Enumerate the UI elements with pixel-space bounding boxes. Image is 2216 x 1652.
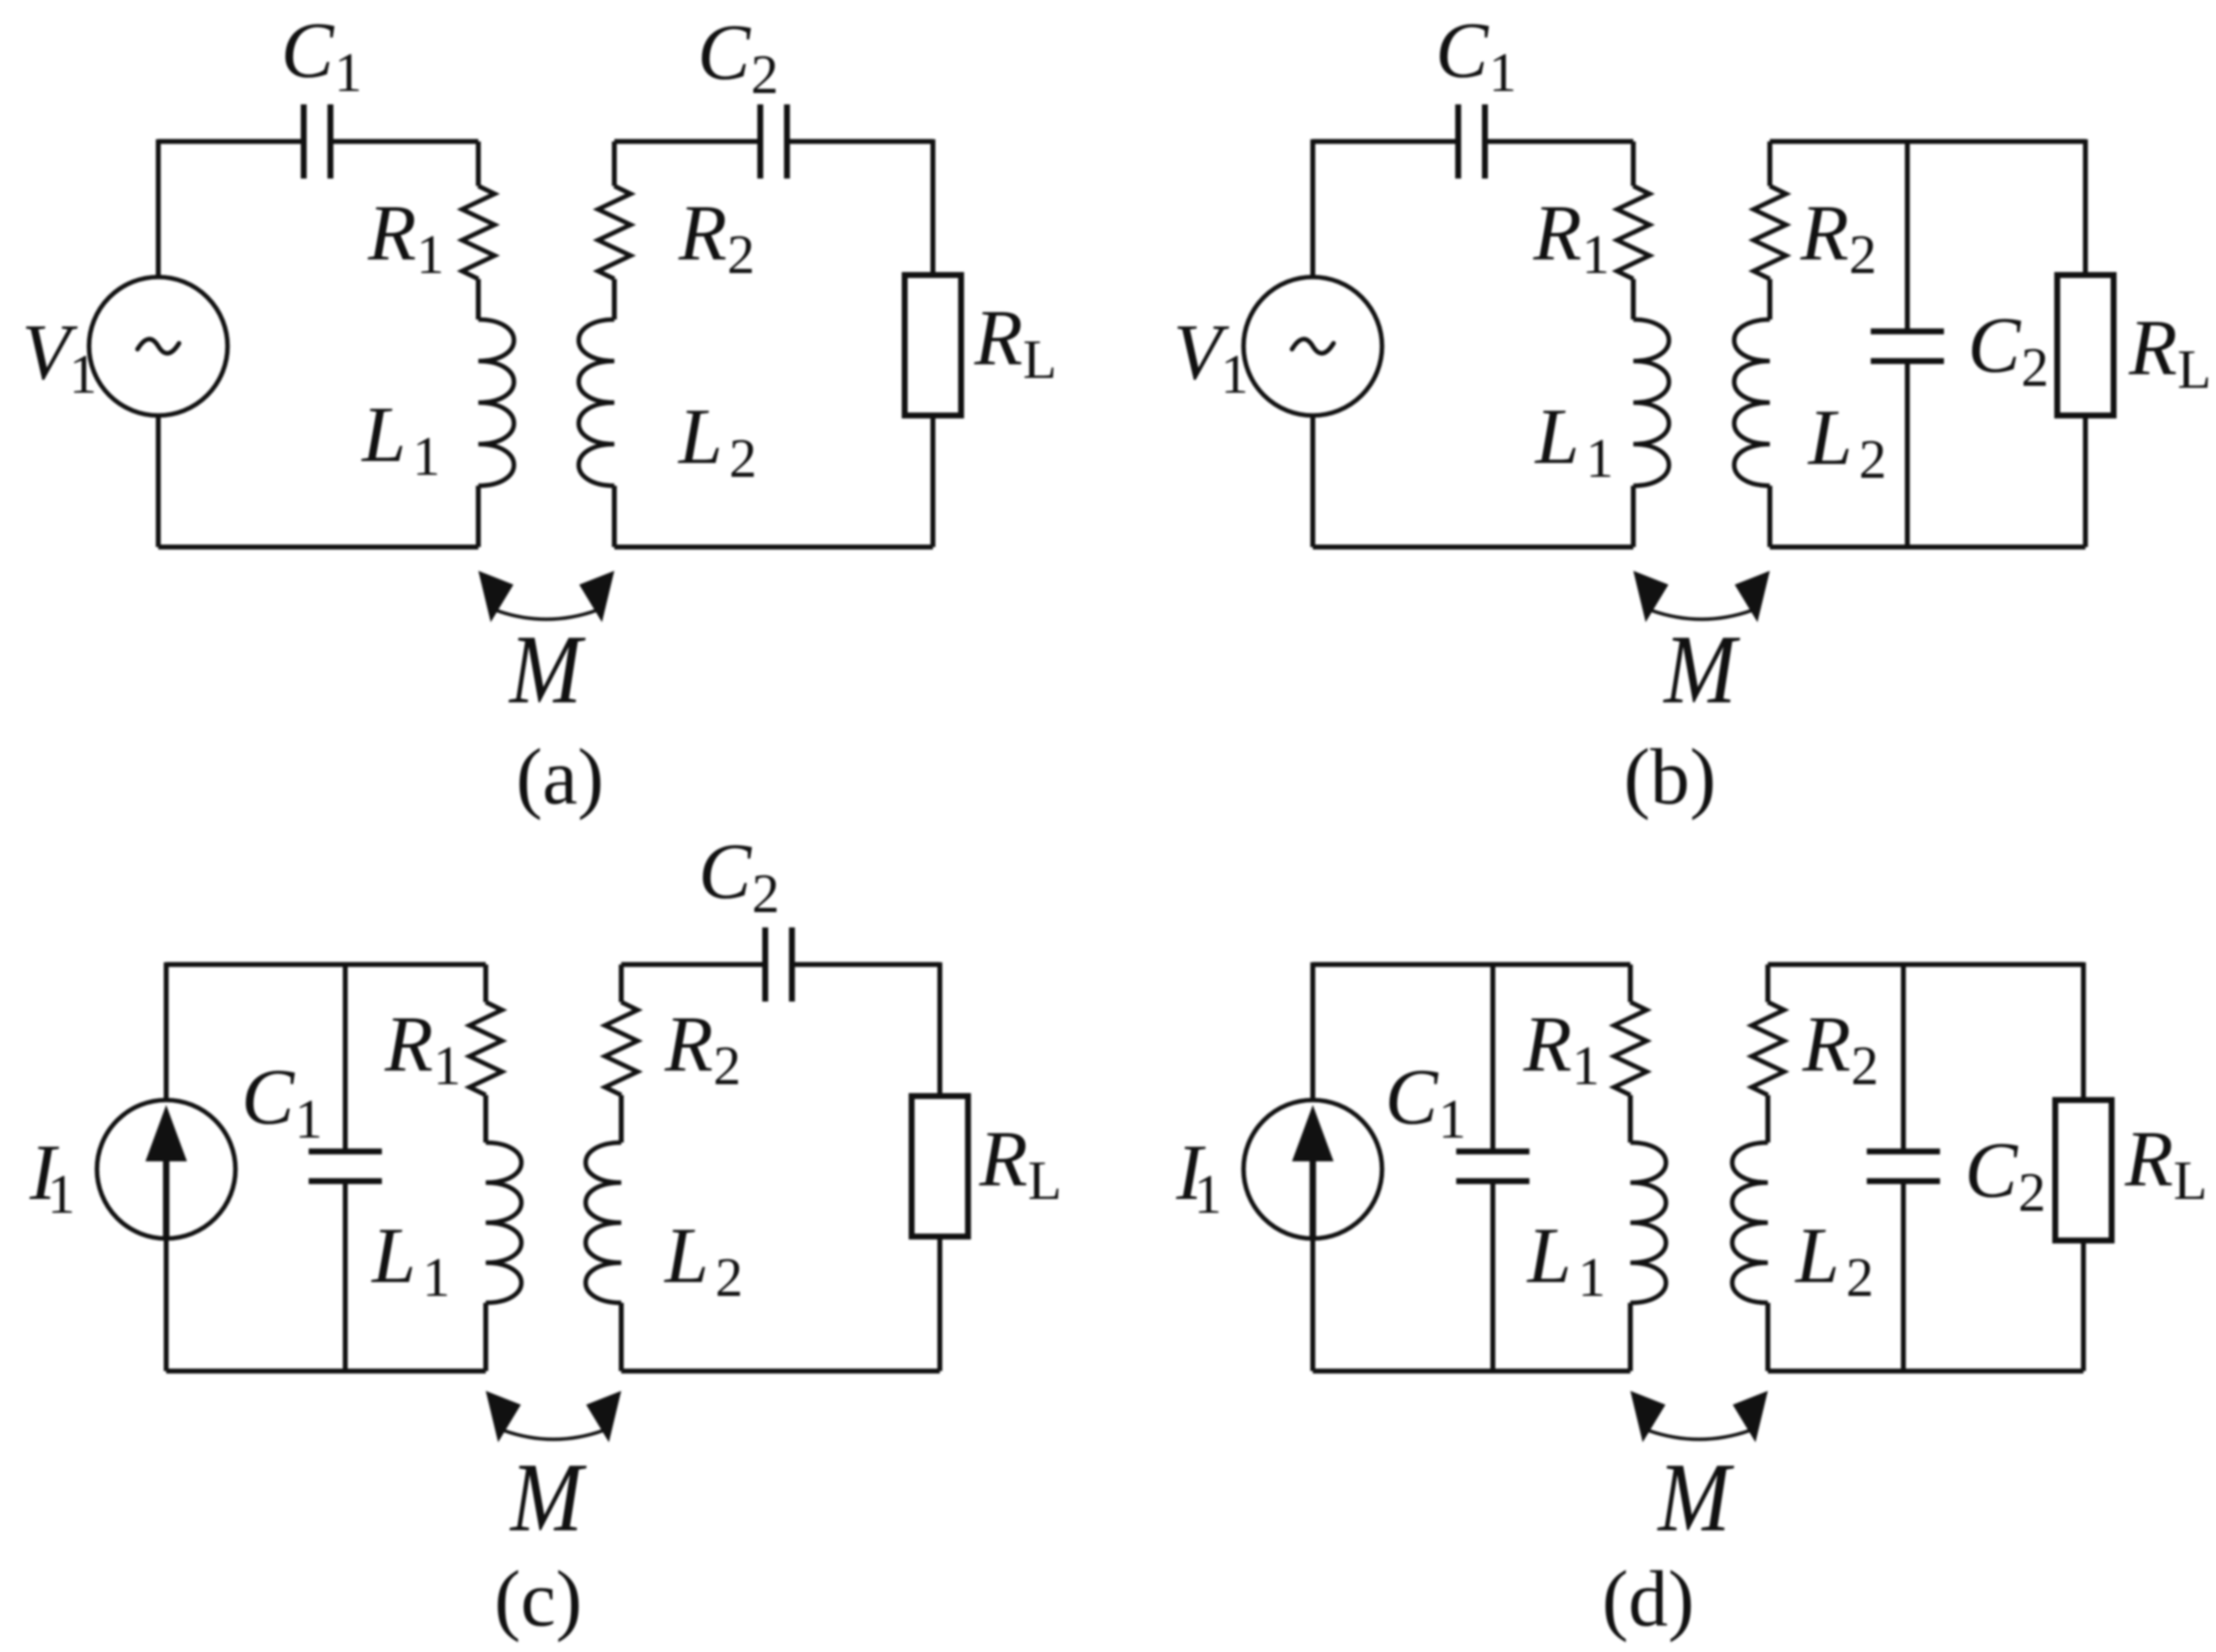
svg-text:2: 2 [752, 864, 780, 925]
svg-text:C: C [1968, 303, 2022, 390]
wire (d) bottom-right [1768, 1369, 2083, 1374]
wire (c) leg2 stub above R2 [619, 964, 624, 1002]
wire (b) leg2 below L2 [1768, 486, 1773, 547]
svg-text:R: R [384, 1001, 433, 1088]
capacitor C2 (d) [1867, 1148, 1940, 1154]
wire (b) leg1 below L1 [1631, 486, 1636, 547]
capacitor C1 (d) [1456, 1148, 1529, 1154]
wire (c) bottom-right [621, 1369, 940, 1374]
svg-text:2: 2 [715, 1247, 743, 1309]
svg-text:2: 2 [1851, 1036, 1879, 1097]
svg-text:2: 2 [729, 428, 757, 490]
svg-text:(d): (d) [1602, 1556, 1694, 1643]
resistor R2 (c) [605, 1002, 638, 1095]
inductor L1 (b) [1633, 320, 1669, 486]
resistor R1 (a) [462, 186, 495, 279]
svg-text:R: R [978, 1116, 1028, 1203]
wire (d) left lower [1311, 1239, 1316, 1371]
wire (b) right lower [2083, 415, 2088, 547]
svg-text:M: M [1662, 614, 1740, 724]
mutual coupling M arrows (c) [486, 1391, 521, 1442]
inductor L2 (d) [1732, 1143, 1768, 1303]
svg-text:1: 1 [69, 344, 97, 406]
svg-text:L: L [678, 394, 723, 481]
svg-text:C: C [281, 8, 335, 95]
svg-text:1: 1 [1586, 428, 1614, 490]
svg-text:2: 2 [727, 225, 755, 286]
svg-text:2: 2 [2021, 337, 2049, 399]
svg-text:M: M [508, 614, 586, 724]
svg-text:R: R [367, 190, 416, 277]
inductor L1 (d) [1630, 1143, 1666, 1303]
wire (b) top-left segment [1313, 139, 1458, 144]
wire (a) between R2 and L2 [612, 279, 617, 320]
wire (a) bottom-left [158, 545, 479, 550]
resistor RL (b) [2058, 275, 2114, 415]
wire (a) right upper [931, 139, 936, 275]
wire (b) right upper [2083, 139, 2088, 275]
wire (c) left lower [164, 1239, 169, 1371]
svg-text:L: L [2173, 1150, 2207, 1212]
wire (b) bottom-left [1313, 545, 1633, 550]
svg-text:2: 2 [1859, 429, 1887, 491]
svg-text:1: 1 [1194, 1164, 1222, 1226]
wire (a) leg1 stub above R1 [476, 141, 481, 186]
wire (d) C2 branch lower [1901, 1181, 1906, 1371]
svg-text:1: 1 [413, 426, 440, 488]
svg-text:M: M [508, 1442, 587, 1552]
svg-text:1: 1 [334, 43, 362, 104]
wire (c) C1 branch upper [343, 964, 348, 1151]
resistor R2 (d) [1752, 1002, 1785, 1095]
wire (a) leg1 below L1 [476, 486, 481, 547]
wire (a) leg2 stub above R2 [612, 141, 617, 186]
inductor L2 (c) [586, 1143, 621, 1303]
svg-text:1: 1 [433, 1036, 461, 1097]
capacitor C2 (b) [1871, 328, 1944, 334]
resistor R1 (d) [1615, 1002, 1647, 1095]
wire (a) bottom-right [614, 545, 933, 550]
wire (d) secondary top [1768, 963, 2083, 967]
wire (d) C1 branch lower [1491, 1181, 1496, 1371]
svg-text:C: C [1435, 8, 1490, 95]
svg-text:(a): (a) [516, 734, 604, 821]
svg-text:1: 1 [295, 1089, 323, 1150]
resistor R2 (a) [599, 186, 631, 279]
wire (a) secondary top-left segment [614, 139, 761, 144]
inductor L2 (a) [579, 320, 614, 486]
svg-text:M: M [1656, 1442, 1734, 1552]
resistor R2 (b) [1754, 186, 1787, 279]
wire (c) C1 branch lower [343, 1181, 348, 1371]
svg-text:2: 2 [1846, 1247, 1874, 1309]
wire (d) leg2 below L2 [1766, 1303, 1771, 1371]
wire (d) between R2 and L2 [1766, 1095, 1771, 1143]
wire (c) between R1 and L1 [484, 1095, 489, 1143]
wire (b) C2 branch lower [1905, 361, 1910, 547]
wire (c) leg1 below L1 [484, 1303, 489, 1371]
svg-text:1: 1 [1438, 1089, 1466, 1150]
wire (a) top-left segment [158, 139, 304, 144]
wire (d) between R1 and L1 [1628, 1095, 1633, 1143]
svg-text:L: L [371, 1213, 416, 1300]
svg-text:L: L [361, 392, 407, 479]
svg-text:R: R [1800, 190, 1849, 277]
svg-text:1: 1 [1578, 1247, 1606, 1309]
wire (c) right upper [938, 963, 943, 1096]
svg-text:L: L [2177, 339, 2211, 401]
wire (a) top of C2 to right [787, 139, 934, 144]
inductor L2 (b) [1734, 320, 1770, 486]
svg-text:1: 1 [47, 1164, 75, 1226]
svg-text:L: L [1807, 395, 1853, 482]
resistor R1 (b) [1617, 186, 1650, 279]
svg-text:1: 1 [1489, 43, 1517, 104]
svg-text:R: R [973, 295, 1023, 382]
resistor RL (a) [905, 275, 962, 415]
wire (c) leg1 stub above R1 [484, 964, 489, 1002]
wire (b) leg1 stub above R1 [1631, 141, 1636, 186]
capacitor C1 (c) [309, 1148, 382, 1154]
svg-text:L: L [1534, 394, 1580, 481]
wire (c) left upper [164, 963, 169, 1100]
wire (d) top [1313, 963, 1630, 967]
svg-text:R: R [1523, 1001, 1572, 1088]
svg-text:1: 1 [1572, 1036, 1600, 1097]
svg-text:C: C [241, 1055, 296, 1142]
svg-text:R: R [2128, 305, 2177, 392]
wire (d) C1 branch upper [1491, 964, 1496, 1151]
wire (a) top-right of C1 to R1 leg [330, 139, 479, 144]
wire (c) top [166, 963, 486, 967]
wire (b) bottom-right [1770, 545, 2085, 550]
capacitor C2 (c) [763, 928, 769, 1002]
wire (c) leg2 below L2 [619, 1303, 624, 1371]
wire (d) C2 branch upper [1901, 964, 1906, 1151]
wire (b) C2 branch upper [1905, 141, 1910, 331]
wire (a) leg2 below L2 [612, 486, 617, 547]
wire (c) right lower [938, 1237, 943, 1371]
inductor L1 (c) [486, 1143, 521, 1303]
wire (c) bottom-left [166, 1369, 486, 1374]
wire (b) left lower [1311, 415, 1316, 547]
wire (a) left lower [156, 415, 161, 547]
svg-text:C: C [697, 10, 752, 97]
wire (c) secondary top-left segment [621, 963, 766, 967]
svg-text:1: 1 [422, 1247, 450, 1309]
wire (c) top of C2 to right [792, 963, 941, 967]
svg-text:(b): (b) [1623, 734, 1715, 821]
mutual coupling M arrows (d) [1630, 1391, 1666, 1442]
capacitor C1 (a) [301, 105, 307, 179]
svg-text:L: L [664, 1213, 709, 1300]
svg-text:C: C [1965, 1128, 2019, 1215]
wire (b) between R1 and L1 [1631, 279, 1636, 320]
svg-text:1: 1 [1582, 225, 1610, 286]
wire (b) between R2 and L2 [1768, 279, 1773, 320]
svg-text:L: L [1526, 1213, 1572, 1300]
svg-text:L: L [1023, 329, 1057, 391]
wire (b) top of C1 to R1 leg [1485, 139, 1633, 144]
wire (d) leg2 stub above R2 [1766, 964, 1771, 1002]
svg-text:R: R [678, 190, 727, 277]
wire (c) between R2 and L2 [619, 1095, 624, 1143]
source I1 (c) [97, 1100, 235, 1239]
svg-text:R: R [1801, 1001, 1851, 1088]
wire (d) leg1 stub above R1 [1628, 964, 1633, 1002]
svg-text:R: R [2124, 1116, 2173, 1203]
source V1 (b) [1244, 277, 1382, 415]
source I1 (d) [1244, 1100, 1382, 1239]
svg-text:(c): (c) [495, 1556, 583, 1643]
capacitor C2 (a) [758, 105, 764, 179]
svg-text:2: 2 [2018, 1162, 2046, 1224]
wire (b) secondary top [1770, 139, 2085, 144]
svg-text:1: 1 [416, 225, 444, 286]
svg-text:2: 2 [1849, 225, 1877, 286]
resistor RL (c) [912, 1096, 969, 1237]
svg-text:R: R [664, 1001, 713, 1088]
capacitor C1 (b) [1455, 105, 1461, 179]
resistor R1 (c) [470, 1002, 503, 1095]
wire (b) left upper [1311, 139, 1316, 277]
source V1 (a) [89, 277, 228, 415]
inductor L1 (a) [479, 320, 514, 486]
wire (b) leg2 stub above R2 [1768, 141, 1773, 186]
svg-text:2: 2 [751, 45, 779, 106]
svg-text:C: C [1385, 1055, 1439, 1142]
svg-text:1: 1 [1221, 344, 1248, 406]
wire (d) bottom-left [1313, 1369, 1630, 1374]
wire (d) left upper [1311, 963, 1316, 1100]
mutual coupling M arrows (a) [479, 571, 514, 622]
svg-text:2: 2 [713, 1036, 741, 1097]
svg-text:L: L [1795, 1213, 1840, 1300]
wire (a) left upper [156, 139, 161, 277]
wire (d) right lower [2081, 1240, 2086, 1371]
svg-text:R: R [1532, 190, 1582, 277]
svg-text:L: L [1028, 1150, 1062, 1212]
mutual coupling M arrows (b) [1633, 571, 1669, 622]
wire (a) right lower [931, 415, 936, 547]
resistor RL (d) [2056, 1100, 2112, 1240]
wire (a) between R1 and L1 [476, 279, 481, 320]
wire (d) leg1 below L1 [1628, 1303, 1633, 1371]
svg-text:C: C [698, 829, 753, 916]
wire (d) right upper [2081, 963, 2086, 1100]
